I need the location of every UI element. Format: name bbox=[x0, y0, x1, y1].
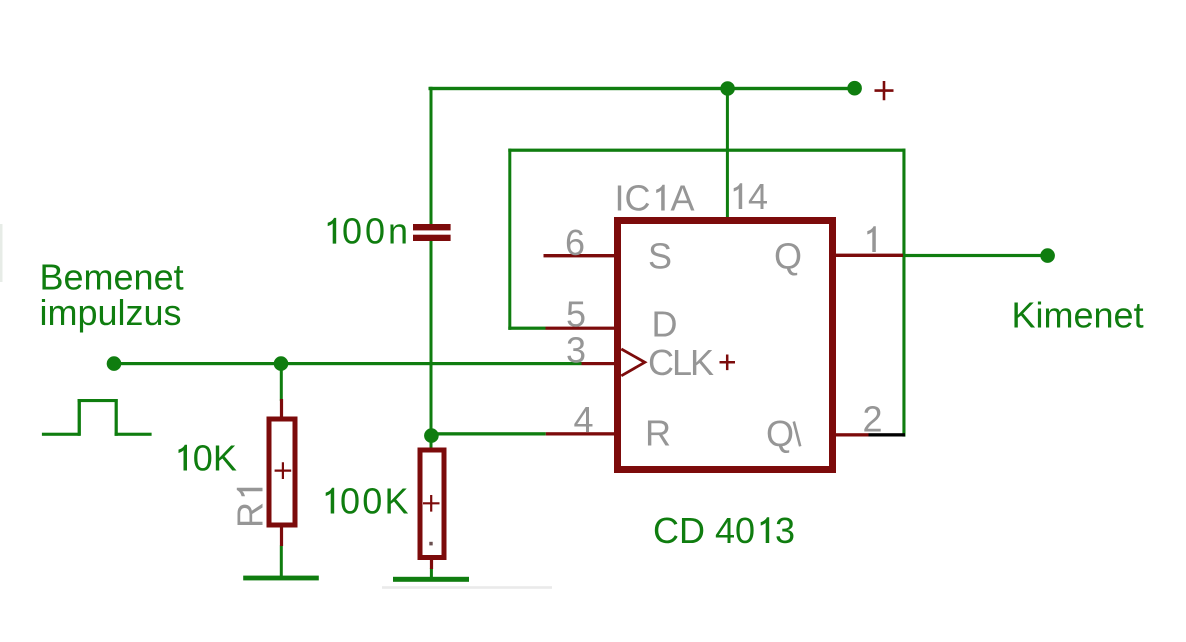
svg-text:Kimenet: Kimenet bbox=[1012, 295, 1144, 336]
svg-text:Q: Q bbox=[774, 236, 802, 277]
svg-text:R: R bbox=[645, 413, 671, 454]
svg-text:D: D bbox=[652, 304, 678, 345]
svg-text:A: A bbox=[671, 178, 695, 219]
svg-text:6: 6 bbox=[565, 222, 585, 263]
svg-text:CD 40: CD 40 bbox=[653, 510, 755, 551]
svg-text:4: 4 bbox=[748, 176, 768, 217]
svg-text:S: S bbox=[648, 236, 672, 277]
svg-text:impulzus: impulzus bbox=[40, 292, 182, 333]
svg-text:Q: Q bbox=[766, 413, 794, 454]
svg-text:CLK: CLK bbox=[648, 342, 714, 383]
svg-text:IC: IC bbox=[615, 178, 651, 219]
svg-text:00n: 00n bbox=[342, 211, 408, 252]
svg-text:0K: 0K bbox=[193, 438, 237, 479]
svg-text:4: 4 bbox=[574, 399, 594, 440]
svg-text:3: 3 bbox=[775, 510, 795, 551]
svg-text:00K: 00K bbox=[340, 481, 409, 522]
svg-text:R: R bbox=[230, 502, 271, 528]
svg-text:3: 3 bbox=[566, 329, 586, 370]
svg-text:2: 2 bbox=[863, 399, 883, 440]
